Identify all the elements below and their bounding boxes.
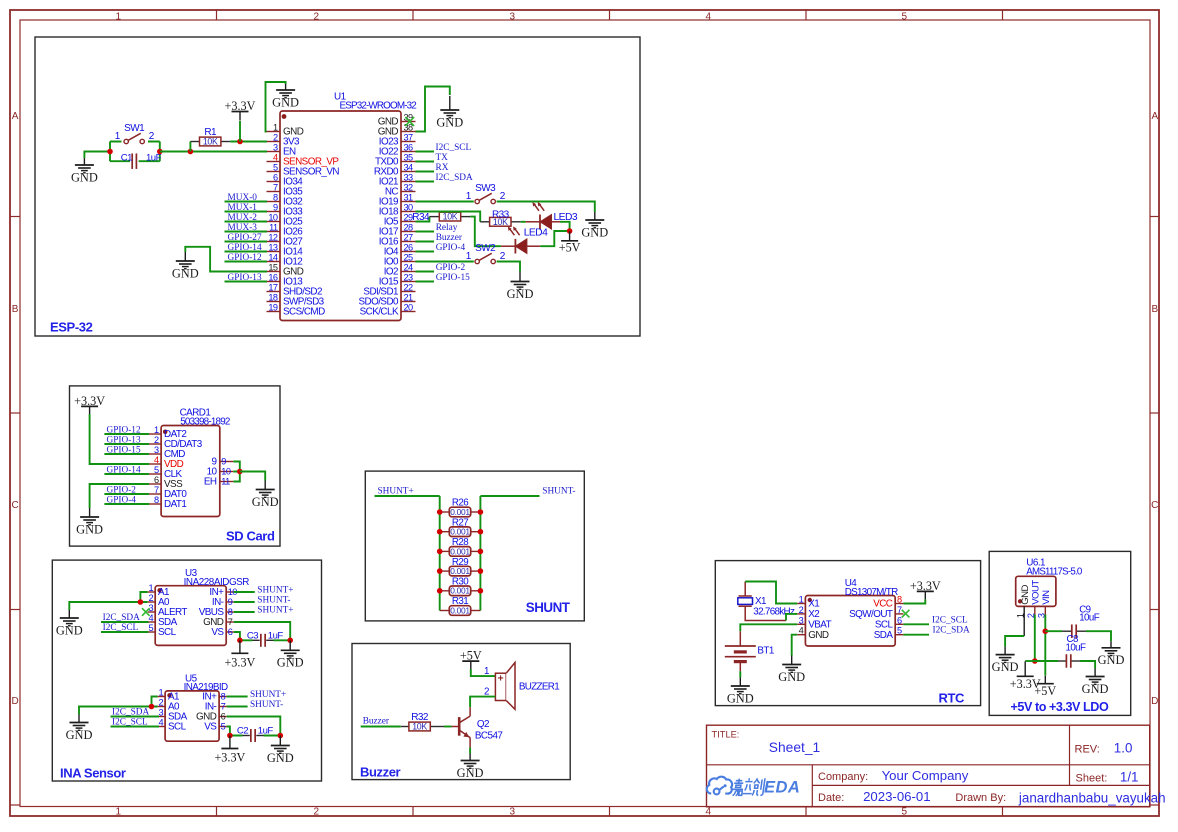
net label SHUNT+ wire U3 (234, 591, 255, 593)
junction left of SW1 (107, 149, 113, 155)
svg-text:Buzzer: Buzzer (360, 765, 401, 780)
svg-text:SHUNT-: SHUNT- (542, 487, 575, 497)
U1 pin 29 IO5 (401, 221, 416, 223)
svg-text:28: 28 (404, 223, 414, 233)
svg-text:C3: C3 (247, 630, 258, 641)
junction U5 address (149, 704, 155, 710)
power +3.3V below U3 (231, 652, 248, 654)
svg-text:27: 27 (404, 233, 414, 243)
svg-text:Sheet:: Sheet: (1076, 773, 1108, 785)
U1 pin 8 IO32 (267, 201, 281, 203)
block box SHUNT (365, 471, 584, 621)
svg-text:SHUNT: SHUNT (526, 600, 571, 615)
block box RTC (715, 561, 980, 706)
net label SHUNT- wire U5 (227, 706, 248, 708)
svg-text:6: 6 (273, 173, 278, 183)
frame column ticks bottom (216, 807, 218, 817)
wire X1 top to U4 pin1 (744, 582, 746, 597)
U5 pin 5 VS (219, 726, 227, 728)
wire +3.3V to 3V3 node (239, 121, 241, 142)
svg-text:GPIO-12: GPIO-12 (228, 253, 262, 263)
svg-text:GND: GND (1098, 653, 1125, 667)
svg-text:Company:: Company: (818, 771, 868, 783)
frame row ticks right (1150, 216, 1159, 218)
svg-text:10K: 10K (203, 137, 218, 147)
svg-text:10: 10 (221, 467, 231, 477)
U1 pin 7 IO35 (267, 191, 281, 193)
svg-text:SHUNT-: SHUNT- (257, 596, 290, 606)
svg-text:36: 36 (404, 143, 414, 153)
U1 pin 10 IO25 (267, 221, 281, 223)
U3 pin 10 IN+ (226, 591, 234, 593)
U1 pin 24 IO2 (401, 271, 416, 273)
svg-text:GND: GND (252, 495, 279, 509)
wire C8 to GND (1080, 661, 1095, 669)
U1 pin 19 SCS/CMD (267, 311, 281, 313)
U3 pin 8 VBUS (226, 611, 234, 613)
wire X1 bottom to U4 pin2 (745, 606, 786, 620)
svg-text:16: 16 (268, 273, 278, 283)
U4 pin 3 VBAT (797, 623, 805, 625)
svg-text:R1: R1 (204, 127, 217, 138)
svg-text:C1: C1 (121, 153, 132, 164)
ground symbol SD left (89, 508, 91, 517)
power +5V buzzer (462, 660, 479, 662)
U1 pin 23 IO15 (401, 281, 416, 283)
svg-text:10K: 10K (412, 722, 427, 732)
title block row divider 2 (812, 784, 1149, 786)
LED LED4 (514, 239, 516, 254)
svg-text:6: 6 (221, 712, 226, 722)
svg-text:GPIO-4: GPIO-4 (436, 243, 466, 253)
wire U5 A1/A0 tie to GND (79, 697, 158, 715)
op-amp U1 body (280, 111, 401, 321)
svg-text:R28: R28 (452, 537, 469, 548)
power +3.3V SD card (81, 405, 98, 407)
svg-text:25: 25 (404, 253, 414, 263)
svg-text:5: 5 (273, 163, 278, 173)
buzzer BUZZER1 symbol (495, 673, 506, 700)
net label GPIO-13 wire stub (SD) (104, 443, 149, 445)
resistor R33 (480, 221, 490, 223)
svg-text:23: 23 (404, 273, 414, 283)
ground symbol left of SW1 (83, 158, 85, 165)
ground symbol below C3 (289, 640, 291, 650)
U1 pin 32 NC (401, 191, 416, 193)
wire +3.3V to CARD1 VDD (90, 414, 149, 464)
svg-text:Drawn By:: Drawn By: (955, 792, 1006, 804)
battery BT1 (739, 631, 741, 646)
U5 pin 4 SCL (158, 726, 166, 728)
crystal X1 (738, 598, 753, 605)
svg-text:B: B (12, 304, 19, 315)
junction R26 left (437, 509, 443, 515)
ground symbol left of U5 (78, 715, 80, 723)
wire Q2 base lead (444, 726, 452, 728)
svg-text:SQW/OUT: SQW/OUT (849, 609, 893, 620)
svg-text:GPIO-14: GPIO-14 (107, 466, 141, 476)
svg-text:GND: GND (808, 630, 829, 641)
U1 pin 34 RXD0 (401, 171, 416, 173)
svg-text:GND: GND (267, 751, 294, 765)
svg-text:GPIO-14: GPIO-14 (228, 243, 262, 253)
svg-text:1uF: 1uF (146, 153, 162, 164)
wire EN junction to U1 pin3 (190, 151, 267, 153)
svg-text:R26: R26 (452, 498, 469, 509)
capacitor C1 (131, 153, 133, 169)
U1 pin 31 IO19 (401, 201, 416, 203)
CARD1 pin 10 10 (220, 471, 234, 473)
svg-text:1uF: 1uF (258, 726, 274, 737)
U4 pin 7 SQW/OUT (895, 613, 903, 615)
svg-text:+3.3V: +3.3V (224, 655, 255, 669)
no-connect X on U1 pin 39 (405, 117, 414, 126)
op-amp U4 body (805, 596, 895, 647)
U1 pin 11 IO26 (267, 231, 281, 233)
svg-text:10K: 10K (443, 212, 458, 222)
svg-text:2: 2 (148, 593, 153, 603)
U1 pin 1 GND (267, 131, 281, 133)
logo JLCEDA cloud (707, 777, 732, 794)
wire GND to SW1 network (84, 152, 110, 159)
svg-text:4: 4 (158, 718, 163, 728)
U3 pin 6 VS (226, 631, 234, 633)
svg-text:C: C (1151, 500, 1158, 511)
block box +5V to +3.3V LDO (989, 551, 1130, 715)
net label RX wire stub (416, 171, 435, 173)
net label SHUNT+ wire U5 (227, 696, 248, 698)
wire C9 row (1045, 630, 1062, 632)
U1 pin 5 SENSOR_VN (267, 171, 281, 173)
switch SW3 (475, 199, 479, 203)
svg-text:+3.3V: +3.3V (214, 751, 245, 765)
wire LED4 lead left (501, 245, 516, 247)
svg-text:R31: R31 (452, 596, 468, 607)
svg-text:GPIO-4: GPIO-4 (107, 496, 137, 506)
resistor R32 (401, 726, 409, 728)
net label I2C_SCL wire RTC (903, 623, 929, 625)
svg-text:+5V to +3.3V LDO: +5V to +3.3V LDO (1011, 700, 1109, 714)
svg-text:17: 17 (268, 283, 278, 293)
svg-text:GND: GND (1082, 682, 1109, 696)
junction R30 right (478, 588, 484, 594)
U1 pin 2 3V3 (267, 141, 281, 143)
no-connect X on U4 SQW/OUT (902, 610, 910, 618)
resistor R34 (429, 216, 439, 218)
wire buzzer pin2 to Q2 collector (470, 697, 495, 708)
svg-text:5: 5 (897, 626, 902, 636)
ground symbol left of U6.1 (1004, 647, 1006, 655)
svg-text:1: 1 (158, 688, 163, 698)
svg-text:D: D (11, 696, 18, 707)
svg-text:9: 9 (273, 203, 278, 213)
svg-text:SW3: SW3 (475, 183, 496, 194)
svg-text:GND: GND (56, 623, 83, 637)
svg-text:LED4: LED4 (524, 227, 548, 238)
U1 pin 36 IO22 (401, 151, 416, 153)
svg-text:Buzzer: Buzzer (436, 233, 463, 243)
net label GPIO-15 wire stub (SD) (104, 453, 149, 455)
svg-text:GPIO-15: GPIO-15 (436, 273, 470, 283)
capacitor C9 (1062, 630, 1072, 632)
U5 pin 8 IN+ (219, 696, 227, 698)
svg-text:GPIO-13: GPIO-13 (107, 436, 141, 446)
svg-text:18: 18 (268, 293, 278, 303)
frame column ticks top (216, 10, 218, 20)
CARD1 pin 6 VSS (148, 483, 162, 485)
svg-text:8: 8 (228, 607, 233, 617)
svg-text:5: 5 (154, 465, 159, 475)
svg-text:2: 2 (158, 698, 163, 708)
junction VIN node (1043, 628, 1049, 634)
svg-text:2: 2 (273, 133, 278, 143)
svg-text:SCL: SCL (168, 722, 187, 733)
wire C2 row (230, 735, 280, 737)
U1 pin 4 SENSOR_VP (267, 161, 281, 163)
svg-text:Your Company: Your Company (882, 768, 969, 783)
svg-text:GPIO-2: GPIO-2 (436, 263, 466, 273)
wire U1 pin25 to SW2 (416, 261, 474, 263)
svg-text:8: 8 (154, 495, 159, 505)
svg-text:8: 8 (273, 193, 278, 203)
svg-text:11: 11 (269, 223, 278, 233)
svg-text:8: 8 (221, 692, 226, 702)
svg-text:SCK/CLK: SCK/CLK (360, 307, 399, 318)
svg-text:B: B (1151, 304, 1158, 315)
svg-text:VCC: VCC (873, 599, 893, 610)
svg-text:VS: VS (204, 722, 217, 733)
svg-text:19: 19 (268, 303, 278, 313)
block box INA Sensor (52, 560, 321, 781)
svg-text:+3.3V: +3.3V (225, 99, 256, 113)
switch SW2 (475, 259, 479, 263)
wire CARD1 to GND right (240, 472, 265, 481)
svg-text:2: 2 (799, 605, 804, 615)
resistor R29 (440, 570, 450, 572)
junction U3 C3 right (287, 638, 293, 644)
wire U3 A1/A0 tie to GND (69, 592, 147, 610)
net label GPIO-15 wire stub (416, 281, 435, 283)
junction R27 right (478, 529, 484, 535)
svg-text:SHUNT+: SHUNT+ (378, 487, 414, 497)
svg-text:AMS1117S-5.0: AMS1117S-5.0 (1026, 567, 1083, 578)
capacitor C3 (253, 639, 260, 641)
junction R26 right (478, 509, 484, 515)
net label I2C_SDA wire RTC (903, 634, 929, 636)
svg-text:I2C_SDA: I2C_SDA (103, 613, 140, 623)
U1 pin 16 IO13 (267, 281, 281, 283)
CARD1 pin 7 DAT0 (148, 493, 162, 495)
wire U4 GND pin4 (792, 635, 798, 656)
resistor R30 (440, 590, 450, 592)
junction U5 C2 right (278, 733, 284, 739)
svg-text:4: 4 (154, 455, 159, 465)
svg-text:10: 10 (268, 213, 278, 223)
junction R30 left (437, 588, 443, 594)
power +3.3V below U5 (221, 748, 238, 750)
LED LED3 (539, 215, 541, 230)
svg-text:1/1: 1/1 (1120, 770, 1139, 785)
transistor Q2 (458, 717, 461, 736)
power +3.3V below U6.1 (1017, 675, 1034, 677)
svg-text:22: 22 (404, 283, 414, 293)
svg-text:2023-06-01: 2023-06-01 (863, 789, 930, 804)
svg-text:A: A (12, 111, 19, 122)
junction R29 left (437, 568, 443, 574)
svg-text:I2C_SCL: I2C_SCL (436, 143, 472, 153)
svg-text:3: 3 (799, 615, 804, 625)
svg-text:GND: GND (172, 266, 199, 280)
svg-text:VIN: VIN (1041, 590, 1052, 605)
svg-text:3: 3 (154, 445, 159, 455)
resistor R1 (190, 141, 199, 143)
net label GPIO-27 wire stub (225, 241, 268, 243)
U1 pin 25 IO0 (401, 261, 416, 263)
U1 pin 12 IO27 (267, 241, 281, 243)
wire U1 pin30 to R33 (416, 212, 481, 222)
svg-text:21: 21 (404, 293, 414, 303)
title block logo cell divider (811, 765, 813, 807)
svg-text:I2C_SCL: I2C_SCL (932, 615, 968, 625)
svg-text:GND: GND (727, 691, 754, 705)
svg-text:GND: GND (507, 287, 534, 301)
net label Buzzer wire stub (416, 241, 435, 243)
svg-text:+3.3V: +3.3V (910, 579, 941, 593)
svg-text:Sheet_1: Sheet_1 (769, 740, 820, 755)
svg-text:34: 34 (404, 163, 414, 173)
svg-text:GND: GND (1020, 585, 1031, 605)
svg-text:1: 1 (154, 425, 159, 435)
wire LED4 to +5V junction (527, 245, 540, 247)
svg-text:33: 33 (404, 173, 414, 183)
svg-text:GND: GND (66, 728, 93, 742)
svg-text:I2C_SDA: I2C_SDA (436, 173, 473, 183)
wire VIN rail (1044, 615, 1046, 676)
junction U3 VS (237, 638, 243, 644)
CARD1 pin 4 VDD (148, 463, 162, 465)
svg-text:RX: RX (436, 163, 449, 173)
U1 pin 28 IO17 (401, 231, 416, 233)
svg-text:GND: GND (76, 522, 103, 536)
U1 pin 17 SHD/SD2 (267, 291, 281, 293)
svg-text:26: 26 (404, 243, 414, 253)
U6.1 pin 2 VOUT (1034, 606, 1036, 614)
U5 pin 2 A0 (158, 706, 166, 708)
U1 pin 13 IO14 (267, 251, 281, 253)
svg-text:ESP-32: ESP-32 (50, 320, 93, 335)
svg-text:Q2: Q2 (477, 719, 489, 730)
svg-text:GND: GND (272, 95, 299, 109)
svg-text:X1: X1 (808, 599, 820, 610)
U1 pin 14 IO12 (267, 261, 281, 263)
wire R33 to LED3 (521, 221, 526, 223)
svg-text:35: 35 (404, 153, 414, 163)
net label Buzzer wire (361, 726, 401, 728)
wire R1 left lead drop (189, 142, 191, 152)
svg-text:GPIO-27: GPIO-27 (228, 233, 262, 243)
U1 pin 9 IO33 (267, 211, 281, 213)
svg-text:GPIO-2: GPIO-2 (107, 486, 137, 496)
op-amp U3 body (155, 586, 226, 646)
ground symbol below pin15 route (184, 252, 186, 261)
title block outline (707, 725, 1150, 807)
net label MUX-1 wire stub (225, 211, 268, 213)
U5 pin 1 A1 (158, 696, 166, 698)
junction R29 right (478, 568, 484, 574)
wire C3 row (240, 639, 290, 641)
svg-text:GPIO-13: GPIO-13 (228, 273, 262, 283)
svg-text:X1: X1 (755, 596, 767, 607)
block box SD Card (70, 386, 281, 546)
wire U1 pin1 to GND (266, 82, 286, 132)
U1 pin 22 SDI/SD1 (401, 291, 416, 293)
svg-text:5: 5 (221, 722, 226, 732)
svg-text:R29: R29 (452, 557, 468, 568)
svg-text:SCS/CMD: SCS/CMD (283, 307, 325, 318)
svg-text:1.0: 1.0 (1114, 741, 1133, 756)
svg-text:GPIO-12: GPIO-12 (107, 426, 141, 436)
net label I2C_SCL wire U5 (111, 726, 160, 728)
power +3.3V RTC (917, 590, 934, 592)
U1 pin 15 GND (267, 271, 281, 273)
U1 pin 39 GND (401, 121, 416, 123)
svg-text:VBAT: VBAT (808, 620, 831, 631)
wire VOUT to +3.3V (1025, 660, 1035, 662)
svg-text:SD Card: SD Card (226, 529, 275, 544)
svg-text:SW1: SW1 (124, 123, 145, 134)
connector CARD1 body (161, 426, 220, 517)
svg-text:+5V: +5V (1034, 684, 1056, 698)
svg-text:9: 9 (228, 597, 233, 607)
CARD1 pin 3 CMD (148, 453, 162, 455)
net label GPIO-12 wire stub (225, 261, 268, 263)
U3 pin 5 SCL (148, 631, 156, 633)
svg-text:10uF: 10uF (1066, 642, 1087, 653)
net label GPIO-4 wire stub (SD) (104, 503, 149, 505)
block box ESP-32 (35, 37, 640, 336)
svg-text:10uF: 10uF (1079, 613, 1100, 624)
U1 pin 18 SWP/SD3 (267, 301, 281, 303)
U1 pin 38 GND (401, 131, 416, 133)
wire U1 pin15 GND route (185, 247, 267, 272)
wire U4 VBAT to BT1 (740, 624, 797, 631)
svg-text:TITLE:: TITLE: (712, 730, 740, 740)
svg-text:Date:: Date: (818, 792, 844, 804)
U4 pin 2 X2 (797, 613, 805, 615)
junction CARD1 right (237, 469, 243, 475)
svg-text:6: 6 (228, 627, 233, 637)
CARD1 pin 1 DAT2 (148, 433, 162, 435)
svg-text:5: 5 (148, 623, 153, 633)
wire U3 VS pin6 to cap row (234, 632, 240, 640)
svg-text:RTC: RTC (939, 691, 966, 706)
svg-text:I2C_SCL: I2C_SCL (103, 623, 139, 633)
net label I2C_SCL wire U3 (101, 631, 149, 633)
junction R28 left (437, 549, 443, 555)
net label SHUNT+ wire (375, 495, 440, 497)
svg-text:SHUNT-: SHUNT- (250, 700, 283, 710)
net label GPIO-14 wire stub (225, 251, 268, 253)
svg-text:8: 8 (897, 595, 902, 605)
U1 pin 33 IO21 (401, 181, 416, 183)
capacitor C2 (243, 735, 250, 737)
svg-text:1: 1 (484, 666, 489, 677)
svg-text:DS1307M/TR: DS1307M/TR (845, 587, 898, 598)
net label SHUNT- wire U3 (234, 601, 255, 603)
wire Q2 emitter to GND (469, 738, 471, 748)
svg-text:12: 12 (268, 233, 278, 243)
net label I2C_SDA wire stub (416, 181, 435, 183)
